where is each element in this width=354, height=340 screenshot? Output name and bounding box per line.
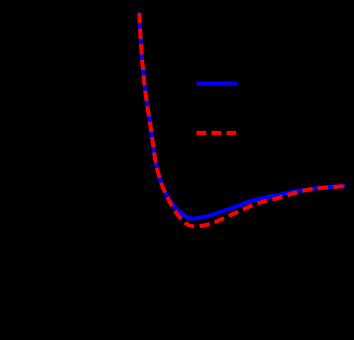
blue solid curve [139, 0, 346, 219]
legend red dashed line sample [196, 131, 237, 135]
red dashed curve [139, 0, 346, 226]
legend blue solid line sample [197, 81, 238, 85]
